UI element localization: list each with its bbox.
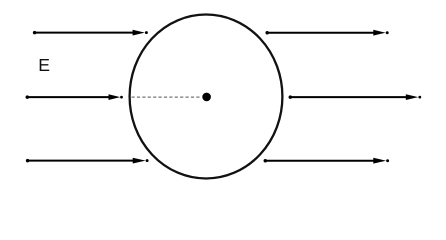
svg-text:E: E [38, 55, 50, 75]
